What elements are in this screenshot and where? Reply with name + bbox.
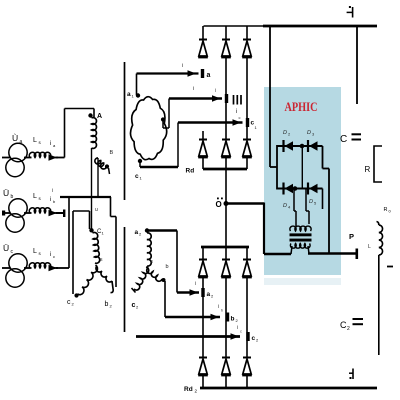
diode lower bridge lower D10 [198,358,208,376]
wire after Ls phase a with current arrow [49,157,59,159]
APHIC box scan ghost band [264,278,341,285]
wire APHIC bottom-left horizontal [264,253,291,256]
wire DC bus down into APHIC [269,26,271,167]
injection transformer secondary winding [290,244,310,249]
svg-text:c: c [252,335,256,342]
wire b1 tap across [163,127,169,129]
wire top positive DC bus (thick right part) [263,25,377,28]
diode top bridge lower D5 [221,140,231,158]
wire APHIC right rail down [328,169,330,255]
winding B tail [109,168,110,174]
wire col1 lower bridge mid [202,277,204,357]
svg-text:D: D [309,199,313,205]
wire phase c riser [68,197,70,268]
injection transformer core bar 1 [290,233,312,236]
wire lower diode D12 to bottom bus [246,375,248,388]
node APHIC top dot [300,144,305,149]
primary star left terminal dot [74,293,78,297]
label b1 (feed, scan-mangled) [234,95,242,105]
svg-text:c: c [240,330,242,334]
wire a2 riser down [176,231,178,293]
node a2 winding top dot [145,228,149,232]
wire col3 lower bridge mid [246,277,248,357]
node O dot [224,201,229,206]
wire corner down to node A [93,109,95,118]
node a (top bridge) tick [201,69,204,78]
svg-text:b: b [221,309,223,313]
label - (right) [387,266,393,268]
diode top bridge lower D6 [242,140,252,158]
svg-text:c: c [132,302,136,309]
wire b2 riser down [164,281,166,317]
wire lower diode D4 to negative bar [202,157,204,169]
node b1 tap dot [161,117,165,121]
svg-text:Ü: Ü [3,243,9,253]
wire primary box left vertical [72,211,74,294]
wire source Ub to inductor [24,212,32,214]
diode top bridge lower D4 [198,140,208,158]
diode lower bridge upper D7 [198,260,208,278]
wire lower bridge top stub col3 [246,247,248,260]
wire b1 riser [168,99,170,129]
wire b1 tap down [162,120,164,128]
inductor Ls phase b [29,208,50,213]
diode top bridge upper D1 [198,40,208,58]
svg-text:P: P [349,232,354,241]
AC source Uc (two overlapped circles) [6,254,27,287]
wire APHIC right transformer leg [305,189,307,212]
injection transformer primary winding [290,226,311,231]
svg-text:C: C [340,320,347,330]
diode lower bridge lower D12 [242,358,252,376]
wire top bus stub col1 [202,26,204,40]
delta secondary winding cloud [130,97,166,160]
wire primary short box top [73,210,90,212]
primary star right arm coil [96,266,112,282]
wire transformer secondary left end [291,246,292,254]
wire phase a to riser [56,157,65,159]
wire primary bus right corner down [110,197,112,217]
wire primary box right vertical [115,217,117,288]
lower secondary left terminal tick [132,288,136,293]
wire feed a1 to bridge [137,72,199,74]
wire APHIC bottom-right stub [322,189,324,210]
thyristor D5 (bottom right) [308,183,318,195]
wire top bus stub col2 [225,26,227,40]
wire right load rail down [378,255,380,355]
thyristor D2 (top left) [284,140,294,152]
wire c1 bottom across [139,161,141,167]
diode lower bridge lower D11 [221,358,231,376]
AC source Ub (two overlapped circles) [6,199,27,232]
wire feed c2 to bridge [136,335,240,338]
wire feed c1 to bridge [178,121,243,123]
thyristor D3 (top right) [308,140,318,152]
wire lower bridge positive bar [201,246,249,249]
wire APHIC bridge bottom row [277,188,323,190]
wire APHIC top-right jog down [322,146,324,169]
wire top horizontal to winding A [65,108,95,110]
wire node O to APHIC (horizontal) [226,202,264,205]
svg-text:i: i [195,281,196,287]
diode top bridge upper D3 [242,40,252,58]
primary star right hook [111,281,114,293]
wire lower bridge top stub col1 [202,247,204,260]
svg-text:i: i [50,197,51,203]
svg-text:R: R [365,165,371,174]
capacitor C1 plate 2 [352,139,362,141]
svg-text:2: 2 [347,326,350,332]
node c1 bottom dot [138,159,142,163]
wire after Ls phase c with current arrow [49,267,59,269]
wire lower diode D5 to negative bar [225,157,227,169]
thyristor D4 (bottom left) [284,183,294,195]
svg-text:a: a [135,229,139,236]
transformer core line lower [124,227,126,332]
wire primary horizontal bus [60,196,111,198]
wire phase b end tick [56,212,64,214]
svg-text:b: b [105,301,109,308]
label + (top DC terminal) [347,6,353,18]
wire APHIC left transformer leg [293,189,295,212]
wire primary box right-short vertical [89,211,91,229]
svg-text:i: i [215,88,216,94]
svg-text:c: c [239,115,241,120]
svg-text:R: R [384,207,388,213]
node A dot [88,113,92,117]
capacitor C2 plate 2 [353,323,364,325]
svg-text:i: i [50,141,51,147]
wire col2 lower bridge mid [225,277,227,357]
svg-text:u: u [95,207,98,213]
svg-text:L: L [33,248,37,255]
wire right load rail from bus [356,26,358,104]
svg-text:L: L [33,193,37,200]
primary winding A coil [92,118,97,149]
wire APHIC bridge top row [277,145,323,147]
wire transformer secondary right end [308,246,309,254]
wire col3 upper-to-lower [246,57,248,139]
node a2 (lower bridge) tick [201,288,204,297]
svg-text:c: c [135,173,139,180]
wire source Uc to inductor [24,267,32,269]
label - (bottom DC terminal) [349,369,353,380]
wire c1 riser [177,123,179,168]
lower secondary center coil [147,233,151,266]
svg-text:i: i [182,63,183,69]
svg-text:a: a [20,139,23,145]
svg-text:A: A [97,113,102,120]
svg-text:Rd: Rd [184,386,193,393]
svg-text:B: B [110,150,114,156]
svg-text:Ù: Ù [12,133,18,143]
wire P output [308,252,357,255]
wire APHIC center leg [301,146,303,189]
svg-text:O: O [216,200,222,209]
wire winding A down to node C1 [91,148,93,229]
node b1 (top bridge) tick [225,94,228,103]
svg-text:b: b [231,316,235,323]
wire APHIC left entry vertical [263,203,265,255]
wire lower diode D11 to bottom bus [225,375,227,388]
diode lower bridge upper D9 [242,260,252,278]
svg-text:APHIC: APHIC [285,100,318,114]
svg-text:a: a [207,291,211,298]
svg-text:i: i [237,325,238,331]
svg-text:c: c [53,254,55,259]
wire after Ls phase b with current arrow [49,212,59,214]
wire source stub phase c [2,267,11,269]
wire APHIC bridge left rail [276,145,278,190]
lower secondary right arm coil [147,268,162,282]
svg-text:i: i [193,86,194,92]
svg-text:L: L [33,137,37,144]
injection transformer core bar 2 [290,239,312,242]
capacitor C2 plate 1 [353,318,364,320]
wire col2 upper-to-lower [225,57,227,139]
wire APHIC top-right jog across [323,168,330,170]
wire phase c to riser [56,267,69,269]
wire feed b1 to bridge [169,97,222,99]
svg-text:i: i [52,188,53,194]
wire delta top corner [136,74,138,96]
wire source stub phase a [2,157,11,159]
wire col1 stub above lower diode [202,131,204,140]
svg-text:Ü: Ü [3,188,9,198]
svg-text:D: D [283,130,287,136]
wire top bus stub col3 [246,26,248,40]
node c2 (lower bridge) tick [246,332,249,341]
node b2 arm dot [162,278,166,282]
svg-text:D: D [307,130,311,136]
svg-text:a: a [207,72,211,79]
wire lower diode D10 to bottom bus [202,375,204,388]
wire a2 across [147,229,177,231]
wire lower bridge top stub col2 [225,247,227,260]
wire primary bus corner across [111,216,117,218]
node c1 (top bridge) tick [246,118,249,127]
wire vertical from B coil to bus line [97,158,99,197]
svg-text:L: L [368,244,371,250]
node B dot [105,164,109,168]
wire col2 to node O and lower bridge [225,169,227,247]
inductor L0 coil [379,225,383,255]
inductor Ls phase c [29,263,50,268]
wire source stub phase b [2,212,11,214]
svg-text:c: c [67,299,71,306]
svg-text:Rd: Rd [186,168,195,175]
wire feed b2 to bridge [165,316,220,318]
svg-text:D: D [283,203,287,209]
inductor L0 hook [377,222,379,226]
svg-text:i: i [218,304,219,310]
primary star left arm coil [78,265,98,295]
svg-text:i: i [236,109,237,115]
node C1 dot [89,228,93,232]
wire top positive DC bus (thin left part) [204,25,265,27]
terminal tick P [355,249,358,260]
primary winding C coil [93,232,100,263]
svg-text:b: b [11,194,14,200]
wire bottom negative DC bus [200,387,377,390]
wire APHIC jog [270,166,277,168]
wire top bridge negative bar [203,168,247,171]
svg-text:i: i [50,252,51,258]
transformer core line upper [124,62,126,200]
diode top bridge upper D2 [221,40,231,58]
node b2 (lower bridge) tick [226,313,229,322]
svg-text:a: a [127,91,131,98]
wire source Ua to inductor [24,157,32,159]
primary winding B coil [95,158,107,169]
inductor Ls phase a [29,152,50,157]
wire phase a riser up [64,109,66,158]
wire feed a2 to bridge [177,291,199,293]
node APHIC bottom dot [293,186,298,191]
AC source Ua (two overlapped circles) [6,143,27,176]
svg-text:C: C [340,134,347,145]
resistor R bracket [374,146,382,182]
capacitor C1 plate 1 [352,133,362,135]
lower secondary left arm coil [134,267,149,290]
wire lower diode D6 to negative bar [246,157,248,169]
svg-text:b: b [166,264,169,270]
APHIC highlight box [264,87,341,275]
diode lower bridge upper D8 [221,260,231,278]
node a1 dot [136,93,140,97]
